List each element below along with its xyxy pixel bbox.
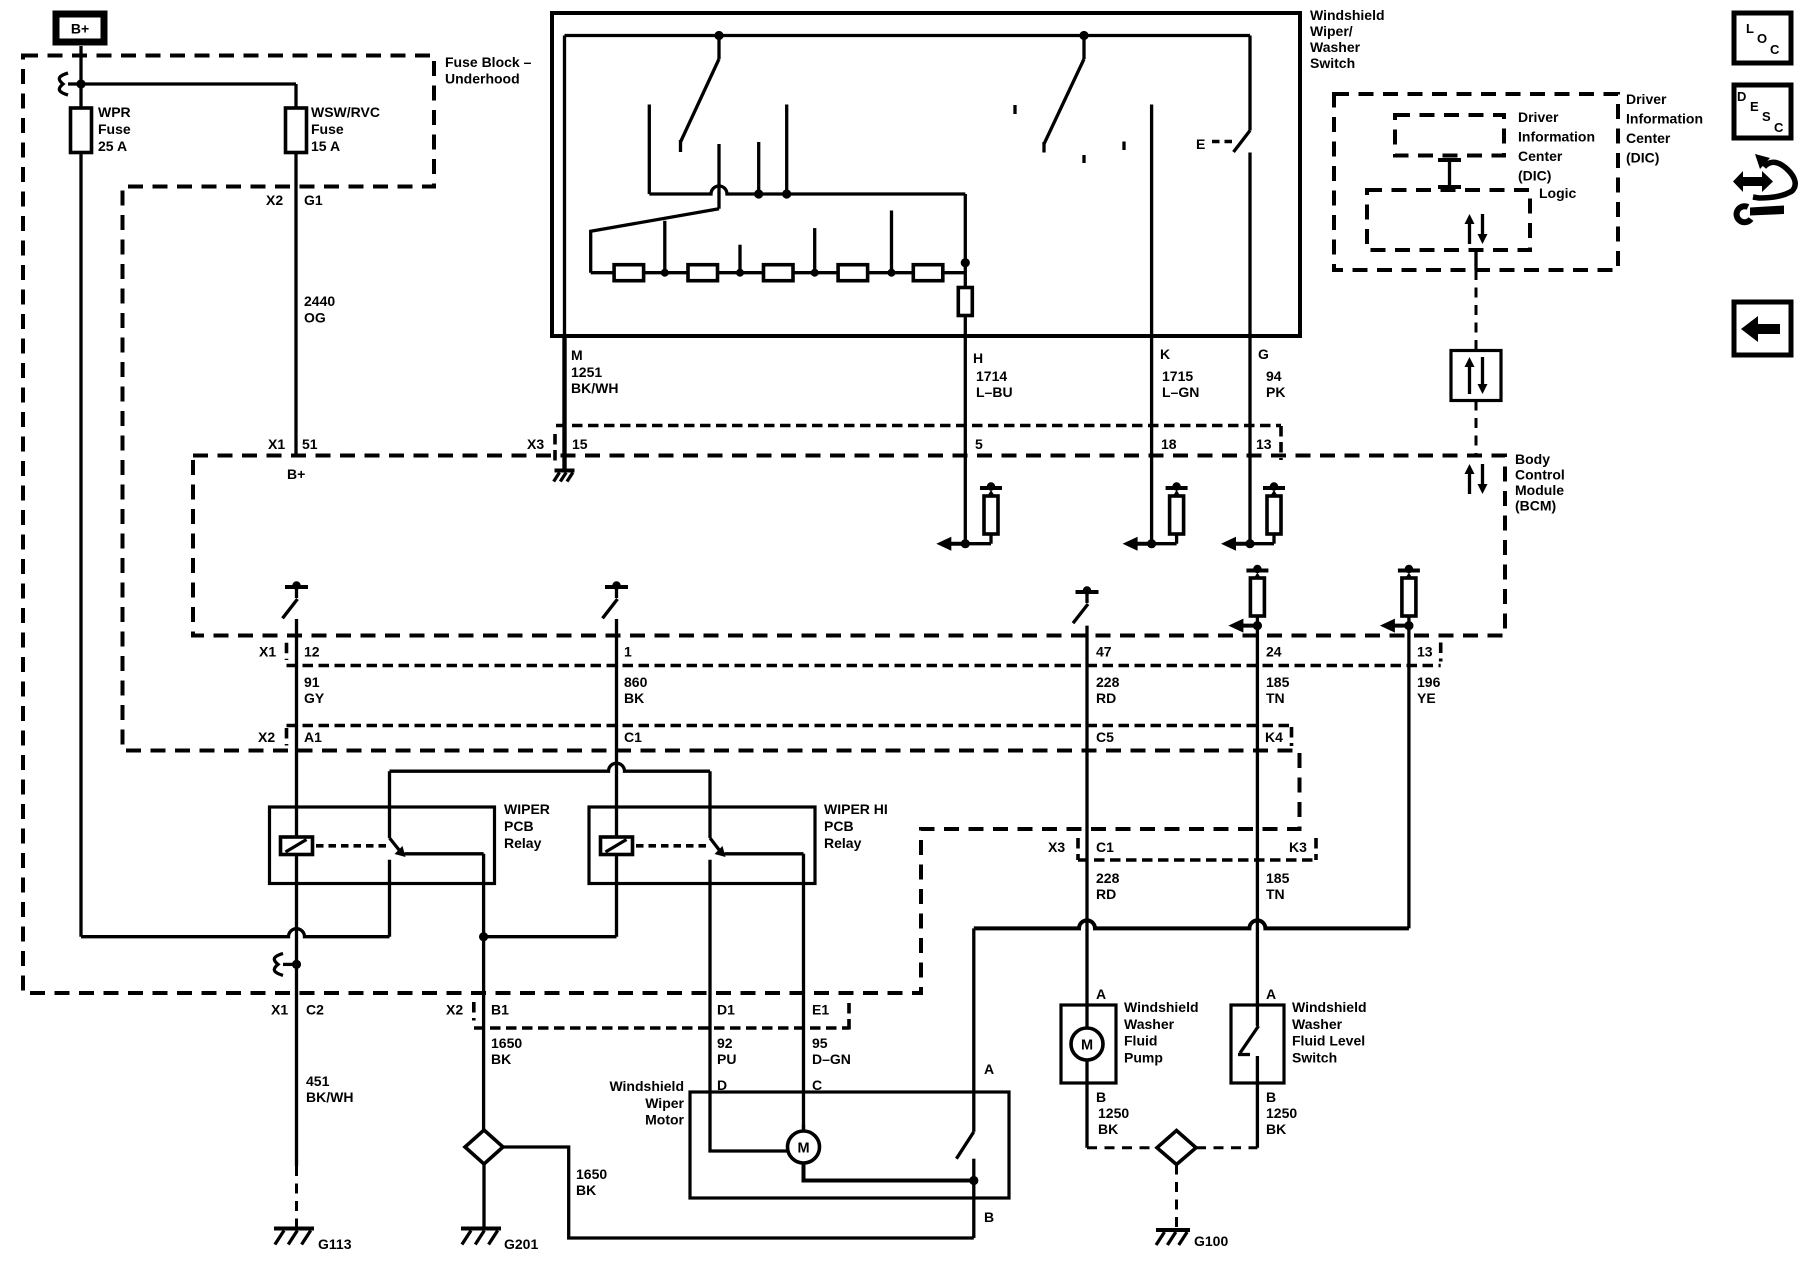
label 92 PU D bbox=[717, 1035, 736, 1093]
mechanical coupling dashes bbox=[1015, 105, 1124, 163]
resistor delay output R6 bbox=[958, 263, 972, 336]
motor park switch blade bbox=[956, 1132, 973, 1159]
switch blade low/delay (from feed) bbox=[681, 36, 720, 153]
svg-text:GY: GY bbox=[304, 690, 325, 706]
svg-text:Control: Control bbox=[1515, 467, 1565, 483]
windshield washer fluid pump box bbox=[1061, 1005, 1116, 1083]
icon LOC button bbox=[1734, 13, 1791, 63]
wire diamond to ground G201 bbox=[482, 1164, 485, 1227]
svg-text:228: 228 bbox=[1096, 674, 1120, 690]
serial data link gateway to BCM bbox=[1475, 401, 1478, 456]
svg-text:47: 47 bbox=[1096, 644, 1112, 660]
switch contact post K (high) bbox=[1150, 105, 1153, 337]
svg-text:18: 18 bbox=[1161, 436, 1177, 452]
connector X1 pin labels 12 1 47 24 13 bbox=[259, 644, 1433, 660]
connector X3 labels C1 K3 bbox=[1048, 839, 1307, 855]
svg-text:K: K bbox=[1160, 346, 1170, 362]
label 94 PK bbox=[1266, 368, 1285, 400]
svg-text:H: H bbox=[973, 350, 983, 366]
wire motor C internal bbox=[802, 1125, 805, 1132]
resistor delay R4 bbox=[838, 265, 868, 281]
svg-text:51: 51 bbox=[302, 436, 318, 452]
splice S1 on B+ feed bbox=[59, 73, 85, 95]
switch contact tap stub T4 bbox=[888, 211, 896, 277]
wire from splice to WSW/RVC fuse bbox=[81, 84, 296, 108]
label Driver Information Center (DIC) inner bbox=[1518, 109, 1595, 184]
wire 1650 BK diamond to motor B bbox=[503, 1147, 974, 1238]
body control module dashed box bbox=[193, 456, 1505, 636]
BCM input pull-up for G 94 bbox=[1221, 482, 1285, 550]
svg-text:C1: C1 bbox=[624, 729, 642, 745]
svg-text:D1: D1 bbox=[717, 1002, 735, 1018]
svg-text:C: C bbox=[1774, 120, 1784, 135]
svg-text:Switch: Switch bbox=[1292, 1049, 1337, 1065]
node feed junction to high blade bbox=[1079, 31, 1088, 40]
DIC display dashed box bbox=[1395, 115, 1504, 156]
switch feed drop to washer blade bbox=[1248, 36, 1251, 131]
resistor delay R5 bbox=[913, 265, 943, 281]
label Logic bbox=[1539, 185, 1577, 201]
svg-text:M: M bbox=[1081, 1038, 1093, 1054]
motor M1 armature bbox=[788, 1131, 820, 1163]
svg-text:Module: Module bbox=[1515, 482, 1564, 498]
svg-text:Washer: Washer bbox=[1124, 1016, 1175, 1032]
switch contact stub mist bbox=[754, 142, 763, 199]
bus WPR fuse feed to relay common bbox=[81, 153, 390, 937]
svg-text:25 A: 25 A bbox=[98, 138, 127, 154]
label Windshield Wiper Motor bbox=[609, 1078, 684, 1127]
label pump pin A bbox=[1096, 986, 1106, 1002]
svg-text:1650: 1650 bbox=[491, 1035, 522, 1051]
label Windshield Washer Fluid Level Switch bbox=[1292, 999, 1367, 1065]
wire switch feed bus (M terminal riser and top rail) bbox=[565, 36, 1251, 337]
relay WIPER PCB box bbox=[270, 807, 495, 884]
svg-text:Switch: Switch bbox=[1310, 55, 1355, 71]
battery feed B+ terminal bbox=[56, 14, 104, 42]
svg-text:185: 185 bbox=[1266, 870, 1290, 886]
label WIPER PCB Relay bbox=[504, 801, 550, 851]
svg-text:1: 1 bbox=[624, 644, 632, 660]
wire 860 BK BCM to relay coil bbox=[615, 619, 618, 837]
connector X2 pin G1 labels bbox=[266, 192, 323, 208]
switch contact post low bbox=[648, 105, 651, 195]
fuse WPR 25A bbox=[71, 108, 92, 153]
svg-text:C2: C2 bbox=[306, 1002, 324, 1018]
svg-text:E: E bbox=[1750, 99, 1759, 114]
svg-text:1251: 1251 bbox=[571, 364, 602, 380]
svg-text:A1: A1 bbox=[304, 729, 322, 745]
svg-text:D–GN: D–GN bbox=[812, 1051, 851, 1067]
driver information center dashed box bbox=[1334, 94, 1618, 270]
svg-text:A: A bbox=[1096, 986, 1106, 1002]
wire pump B to diamond bbox=[1087, 1060, 1157, 1148]
svg-text:A: A bbox=[1266, 986, 1276, 1002]
serial data link DIC to BCM bbox=[1474, 250, 1477, 351]
windshield washer fluid level switch box bbox=[1231, 1005, 1284, 1083]
BCM driver switch for 860 BK bbox=[603, 581, 629, 618]
label 1650 BK at motor branch bbox=[576, 1166, 607, 1198]
relay WIPER common stub bbox=[388, 860, 391, 937]
wire delay wiper arm to resistor ladder bbox=[591, 144, 719, 273]
terminal labels M H K G bbox=[571, 346, 1269, 366]
svg-text:5: 5 bbox=[975, 436, 983, 452]
svg-text:B: B bbox=[1266, 1089, 1276, 1105]
wire 91 GY BCM to relay coil bbox=[295, 619, 298, 837]
svg-text:M: M bbox=[797, 1141, 809, 1157]
svg-text:X1: X1 bbox=[259, 644, 276, 660]
svg-text:PU: PU bbox=[717, 1051, 736, 1067]
svg-text:A: A bbox=[984, 1061, 994, 1077]
svg-text:B: B bbox=[1096, 1089, 1106, 1105]
svg-text:WPR: WPR bbox=[98, 104, 131, 120]
resistor delay R3 bbox=[764, 265, 794, 281]
label 1714 L-BU bbox=[976, 368, 1013, 400]
svg-text:BK: BK bbox=[1098, 1121, 1118, 1137]
connector X3 pin labels 15 5 18 13 bbox=[527, 436, 1272, 452]
svg-text:Windshield: Windshield bbox=[1310, 7, 1385, 23]
ground G113 bbox=[274, 1229, 352, 1253]
splice S2 on coil return bbox=[274, 953, 301, 975]
relay WIPER HI coil link bbox=[636, 844, 706, 848]
svg-text:G113: G113 bbox=[318, 1236, 352, 1252]
svg-text:E: E bbox=[1196, 136, 1205, 152]
svg-text:S: S bbox=[1762, 109, 1771, 124]
svg-text:860: 860 bbox=[624, 674, 648, 690]
label WPR Fuse 25 A bbox=[98, 104, 131, 154]
relay WIPER blade bbox=[390, 838, 406, 857]
svg-text:Logic: Logic bbox=[1539, 185, 1577, 201]
wire relay WIPER coil return bbox=[295, 855, 298, 965]
svg-text:B+: B+ bbox=[71, 21, 89, 37]
label 185 TN lower bbox=[1266, 870, 1290, 902]
svg-text:X3: X3 bbox=[1048, 839, 1065, 855]
svg-text:(DIC): (DIC) bbox=[1626, 150, 1659, 166]
wire level switch B to diamond bbox=[1196, 1083, 1297, 1148]
svg-text:K4: K4 bbox=[1265, 729, 1283, 745]
bus park switch to 196 YE with hops bbox=[974, 920, 1409, 928]
label Fuse Block - Underhood bbox=[445, 54, 532, 87]
svg-text:Fuse Block –: Fuse Block – bbox=[445, 54, 532, 70]
svg-text:Relay: Relay bbox=[504, 835, 542, 851]
svg-text:Center: Center bbox=[1626, 130, 1671, 146]
label 228 RD lower bbox=[1096, 870, 1120, 902]
resistor ladder rail bbox=[591, 271, 966, 274]
fluid level switch blade bbox=[1238, 1005, 1259, 1083]
svg-text:196: 196 bbox=[1417, 674, 1441, 690]
svg-text:2440: 2440 bbox=[304, 293, 335, 309]
icon DESC button bbox=[1734, 85, 1791, 138]
svg-text:185: 185 bbox=[1266, 674, 1290, 690]
svg-text:(DIC): (DIC) bbox=[1518, 168, 1551, 184]
svg-text:13: 13 bbox=[1417, 644, 1433, 660]
motor park switch contact bbox=[969, 1159, 978, 1185]
svg-text:BK: BK bbox=[491, 1051, 511, 1067]
svg-text:Windshield: Windshield bbox=[609, 1078, 684, 1094]
svg-text:1250: 1250 bbox=[1266, 1105, 1297, 1121]
svg-text:X2: X2 bbox=[446, 1002, 463, 1018]
relay WIPER HI coil bbox=[601, 837, 633, 855]
connector X2 pin B1 labels bbox=[446, 1002, 509, 1021]
svg-text:C1: C1 bbox=[1096, 839, 1114, 855]
svg-text:WIPER: WIPER bbox=[504, 801, 550, 817]
label 1650 BK bbox=[491, 1035, 522, 1067]
svg-text:RD: RD bbox=[1096, 690, 1116, 706]
node 1650 junction bbox=[479, 932, 488, 941]
relay WIPER HI NO contact to motor C bbox=[725, 854, 804, 1132]
wire park switch feed A bbox=[972, 928, 975, 1131]
wire B+ feed down from B+ terminal bbox=[79, 46, 82, 108]
svg-text:G201: G201 bbox=[504, 1236, 538, 1252]
wire 1251 BK/WH M terminal to BCM bbox=[562, 336, 566, 469]
wire 1715 L-GN K terminal to BCM bbox=[1150, 336, 1153, 544]
svg-text:Windshield: Windshield bbox=[1292, 999, 1367, 1015]
switch contact tap stub T1 bbox=[661, 221, 669, 277]
wire motor armature to park contact bbox=[804, 1163, 974, 1181]
svg-text:Motor: Motor bbox=[645, 1112, 684, 1128]
svg-text:WSW/RVC: WSW/RVC bbox=[311, 104, 380, 120]
svg-text:Windshield: Windshield bbox=[1124, 999, 1199, 1015]
svg-text:K3: K3 bbox=[1289, 839, 1307, 855]
label Windshield Washer Fluid Pump bbox=[1124, 999, 1199, 1065]
svg-text:TN: TN bbox=[1266, 886, 1285, 902]
label Body Control Module (BCM) bbox=[1515, 451, 1565, 514]
svg-text:24: 24 bbox=[1266, 644, 1282, 660]
svg-text:G: G bbox=[1258, 346, 1269, 362]
svg-text:91: 91 bbox=[304, 674, 320, 690]
DIC logic data arrows bbox=[1465, 214, 1488, 244]
wire 185 TN BCM to fluid level switch bbox=[1256, 626, 1259, 1005]
svg-text:L–BU: L–BU bbox=[976, 384, 1013, 400]
label Windshield Wiper/Washer Switch bbox=[1310, 7, 1385, 71]
svg-text:Body: Body bbox=[1515, 451, 1550, 467]
svg-text:TN: TN bbox=[1266, 690, 1285, 706]
svg-text:Wiper: Wiper bbox=[645, 1095, 684, 1111]
switch contact tap stub T3 bbox=[811, 228, 819, 277]
relay WIPER HI blade bbox=[710, 838, 726, 857]
windshield wiper motor box bbox=[690, 1092, 1009, 1198]
connector X1 pin C2 labels bbox=[271, 1002, 324, 1018]
svg-text:Information: Information bbox=[1518, 129, 1595, 145]
wire relay WIPER armature feed bbox=[388, 771, 391, 838]
svg-text:Fluid: Fluid bbox=[1124, 1033, 1157, 1049]
wire delay common rail with hop over wiper arm bbox=[649, 186, 965, 263]
wire 2440 OG from fuse to BCM X1-51 bbox=[294, 153, 297, 456]
svg-text:BK: BK bbox=[624, 690, 644, 706]
svg-text:BK/WH: BK/WH bbox=[306, 1089, 353, 1105]
svg-text:B1: B1 bbox=[491, 1002, 509, 1018]
serial data gateway box bbox=[1451, 351, 1501, 401]
svg-text:Wiper/: Wiper/ bbox=[1310, 23, 1353, 39]
svg-text:15: 15 bbox=[572, 436, 588, 452]
svg-text:D: D bbox=[1737, 89, 1746, 104]
svg-text:Center: Center bbox=[1518, 148, 1563, 164]
svg-text:1250: 1250 bbox=[1098, 1105, 1129, 1121]
svg-text:Fuse: Fuse bbox=[98, 121, 131, 137]
label 1251 BK/WH bbox=[571, 364, 618, 396]
DIC display-to-logic connector I bar bbox=[1438, 160, 1461, 187]
wire 228 RD BCM to washer pump bbox=[1085, 626, 1088, 1029]
label motor pin A bbox=[984, 1061, 994, 1077]
svg-text:Fluid Level: Fluid Level bbox=[1292, 1033, 1365, 1049]
svg-text:Fuse: Fuse bbox=[311, 121, 344, 137]
connector X3 row C1 K3 bbox=[1078, 838, 1318, 860]
fuse block underhood dashed outline bbox=[23, 56, 1300, 994]
svg-text:Driver: Driver bbox=[1518, 109, 1559, 125]
svg-text:C5: C5 bbox=[1096, 729, 1114, 745]
svg-text:YE: YE bbox=[1417, 690, 1436, 706]
splice diamond S4 bbox=[1157, 1131, 1196, 1165]
relay WIPER coil link bbox=[316, 844, 386, 848]
svg-text:1714: 1714 bbox=[976, 368, 1007, 384]
connector row B1 D1 E1 bbox=[474, 1003, 849, 1030]
svg-text:C: C bbox=[1770, 42, 1780, 57]
svg-text:Washer: Washer bbox=[1310, 39, 1361, 55]
label 2440 OG bbox=[304, 293, 335, 326]
node B+ inside BCM bbox=[287, 466, 305, 482]
svg-text:1715: 1715 bbox=[1162, 368, 1193, 384]
BCM serial data arrows bbox=[1465, 464, 1488, 494]
svg-text:RD: RD bbox=[1096, 886, 1116, 902]
svg-text:PCB: PCB bbox=[504, 818, 534, 834]
wire 94 PK G terminal to BCM bbox=[1248, 336, 1251, 544]
DIC logic dashed box bbox=[1367, 190, 1530, 250]
svg-text:BK: BK bbox=[1266, 1121, 1286, 1137]
svg-text:92: 92 bbox=[717, 1035, 733, 1051]
icon navigation arrows glyph bbox=[1733, 154, 1795, 222]
relay WIPER coil bbox=[281, 837, 313, 855]
node feed junction to mode blade bbox=[714, 31, 723, 40]
svg-text:G1: G1 bbox=[304, 192, 323, 208]
resistor delay R1 bbox=[614, 265, 644, 281]
relay WIPER NO contact to 1650 junction bbox=[405, 854, 484, 937]
node resistor ladder output junction bbox=[961, 258, 970, 267]
connector X2 pin labels A1 C1 C5 K4 bbox=[258, 729, 1283, 745]
icon back button bbox=[1734, 302, 1791, 355]
wire 1714 L-BU H terminal to BCM bbox=[964, 336, 967, 544]
svg-text:13: 13 bbox=[1256, 436, 1272, 452]
wire motor B out bbox=[972, 1181, 975, 1239]
washer switch blade E bbox=[1196, 131, 1250, 153]
label 95 D-GN C bbox=[812, 1035, 851, 1093]
svg-text:G100: G100 bbox=[1194, 1233, 1228, 1249]
svg-text:M: M bbox=[571, 347, 583, 363]
wire 1650 BK to splice diamond bbox=[482, 937, 485, 1130]
connector X3 row at BCM bbox=[555, 426, 1281, 465]
BCM input pull-up for K 1715 bbox=[1123, 482, 1188, 550]
BCM driver switch for 91 GY bbox=[283, 581, 309, 618]
svg-text:X1: X1 bbox=[268, 436, 285, 452]
BCM input pull-up for 196 YE bbox=[1380, 565, 1420, 633]
svg-text:451: 451 bbox=[306, 1073, 330, 1089]
resistor delay R2 bbox=[688, 265, 718, 281]
svg-text:Underhood: Underhood bbox=[445, 71, 520, 87]
label WIPER HI PCB Relay bbox=[824, 801, 888, 851]
label motor pin B bbox=[984, 1209, 994, 1225]
label WSW/RVC Fuse 15 A bbox=[311, 104, 380, 154]
svg-text:B+: B+ bbox=[287, 466, 305, 482]
svg-text:15 A: 15 A bbox=[311, 138, 340, 154]
label 451 BK/WH bbox=[306, 1073, 353, 1105]
svg-text:X2: X2 bbox=[266, 192, 283, 208]
svg-text:228: 228 bbox=[1096, 870, 1120, 886]
wire 196 YE BCM to park switch bus bbox=[1407, 626, 1410, 929]
wire relay WIPER HI armature feed with hop bbox=[390, 763, 711, 838]
svg-text:94: 94 bbox=[1266, 368, 1282, 384]
svg-text:Driver: Driver bbox=[1626, 91, 1667, 107]
svg-text:(BCM): (BCM) bbox=[1515, 498, 1556, 514]
switch contact tap stub T2 bbox=[736, 245, 744, 277]
wire colour labels 91 GY 860 BK 228 RD 185 TN 196 YE bbox=[304, 674, 1441, 706]
svg-text:12: 12 bbox=[304, 644, 320, 660]
wire diamond to ground G100 bbox=[1175, 1165, 1178, 1229]
label 1715 L-GN bbox=[1162, 368, 1199, 400]
svg-text:E1: E1 bbox=[812, 1002, 829, 1018]
ground G100 bbox=[1156, 1230, 1228, 1249]
relay WIPER HI PCB box bbox=[589, 807, 815, 884]
ground termination of 1251 inside BCM bbox=[554, 471, 575, 482]
svg-text:X1: X1 bbox=[271, 1002, 288, 1018]
svg-text:X2: X2 bbox=[258, 729, 275, 745]
wire washer output G bbox=[1248, 153, 1251, 337]
svg-text:O: O bbox=[1757, 31, 1767, 46]
washer pump motor M2 bbox=[1071, 1028, 1103, 1060]
svg-text:Relay: Relay bbox=[824, 835, 862, 851]
bus relay output to WIPER HI coil return bbox=[484, 855, 617, 937]
switch blade high-speed bbox=[1044, 36, 1084, 153]
BCM input pull-up for 185 TN bbox=[1228, 565, 1268, 633]
svg-text:WIPER HI: WIPER HI bbox=[824, 801, 888, 817]
BCM input pull-up for H 1714 bbox=[936, 482, 1002, 550]
svg-text:PCB: PCB bbox=[824, 818, 854, 834]
connector pin labels D1 E1 bbox=[717, 1002, 829, 1018]
svg-text:1650: 1650 bbox=[576, 1166, 607, 1182]
fuse WSW/RVC 15A bbox=[286, 108, 307, 153]
connector X2 row at fuse block bbox=[287, 726, 1292, 747]
windshield wiper/washer switch housing bbox=[552, 13, 1300, 336]
wire motor D internal bbox=[710, 1092, 788, 1151]
svg-text:95: 95 bbox=[812, 1035, 828, 1051]
svg-text:BK/WH: BK/WH bbox=[571, 380, 618, 396]
svg-text:BK: BK bbox=[576, 1182, 596, 1198]
svg-text:X3: X3 bbox=[527, 436, 544, 452]
ground G201 bbox=[461, 1229, 538, 1253]
svg-text:Washer: Washer bbox=[1292, 1016, 1343, 1032]
label Driver Information Center (DIC) outer bbox=[1626, 91, 1703, 166]
svg-text:Pump: Pump bbox=[1124, 1049, 1163, 1065]
label level switch pin A bbox=[1266, 986, 1276, 1002]
svg-text:Information: Information bbox=[1626, 111, 1703, 127]
svg-text:L–GN: L–GN bbox=[1162, 384, 1199, 400]
connector X1 row below BCM bbox=[287, 643, 1441, 666]
BCM driver switch for 228 RD bbox=[1073, 586, 1099, 623]
splice diamond S3 bbox=[465, 1130, 503, 1164]
switch contact stub off bbox=[782, 105, 791, 199]
svg-text:L: L bbox=[1746, 21, 1754, 36]
svg-text:B: B bbox=[984, 1209, 994, 1225]
svg-text:PK: PK bbox=[1266, 384, 1285, 400]
wire 451 BK/WH to ground G113 bbox=[295, 964, 298, 1227]
relay WIPER HI common to motor D bbox=[708, 860, 711, 1092]
svg-text:OG: OG bbox=[304, 310, 326, 326]
connector X1 pin 51 labels bbox=[268, 436, 318, 452]
